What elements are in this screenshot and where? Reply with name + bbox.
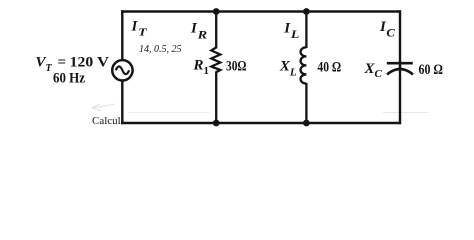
svg-text:IR: IR bbox=[190, 21, 208, 42]
resistor R1 zigzag bbox=[211, 48, 220, 73]
junction dot top R bbox=[213, 8, 220, 15]
wire left vertical lower (source to bottom corner) bbox=[121, 81, 123, 125]
svg-text:60 Hz: 60 Hz bbox=[53, 71, 85, 87]
svg-text:VT: VT bbox=[36, 55, 53, 75]
ghost artifact faint line right bbox=[383, 112, 428, 114]
ghost artifact faint line left bbox=[128, 112, 210, 114]
wire top horizontal bbox=[121, 10, 401, 13]
wire resistor branch lower bbox=[215, 72, 217, 124]
svg-text:30Ω: 30Ω bbox=[226, 59, 247, 75]
svg-text:14, 0.5, 25: 14, 0.5, 25 bbox=[139, 44, 182, 55]
wire capacitor branch upper (right edge) bbox=[399, 10, 401, 69]
svg-text:=: = bbox=[58, 55, 67, 71]
wire capacitor branch lower bbox=[399, 66, 401, 124]
svg-text:Calcul: Calcul bbox=[92, 115, 121, 127]
ghost artifact arrow bbox=[92, 104, 115, 111]
wire left vertical upper (top corner to source) bbox=[121, 10, 123, 60]
svg-text:XC: XC bbox=[364, 61, 383, 80]
svg-text:XL: XL bbox=[279, 58, 297, 78]
inductor XL coil bbox=[301, 47, 307, 83]
junction dot bottom L bbox=[303, 120, 310, 127]
wire inductor branch upper bbox=[305, 12, 307, 49]
wire resistor branch upper bbox=[215, 12, 217, 49]
junction dot top L bbox=[303, 8, 310, 15]
svg-text:IC: IC bbox=[379, 19, 395, 40]
svg-text:IT: IT bbox=[131, 19, 149, 39]
capacitor XC straight plate bbox=[387, 62, 413, 65]
AC source VT circle bbox=[112, 60, 132, 80]
AC source sine wave bbox=[116, 66, 129, 74]
junction dot bottom R bbox=[213, 120, 220, 127]
svg-text:60 Ω: 60 Ω bbox=[419, 62, 444, 78]
svg-text:40 Ω: 40 Ω bbox=[317, 59, 341, 75]
wire bottom horizontal bbox=[121, 122, 401, 125]
capacitor XC curved plate bbox=[387, 69, 413, 75]
svg-text:R1: R1 bbox=[193, 58, 210, 77]
svg-text:120: 120 bbox=[70, 55, 94, 71]
svg-text:IL: IL bbox=[283, 21, 299, 42]
wire inductor branch lower bbox=[305, 83, 307, 123]
svg-text:V: V bbox=[97, 55, 109, 71]
